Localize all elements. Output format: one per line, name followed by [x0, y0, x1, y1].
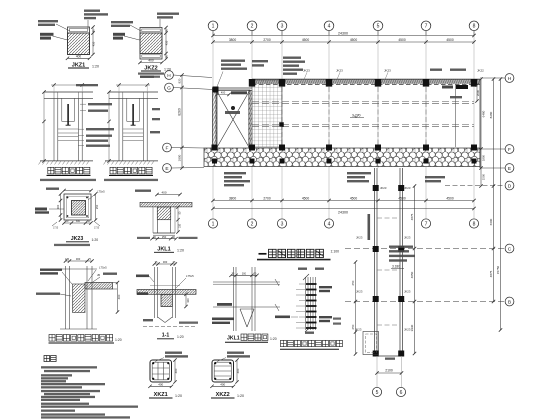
svg-text:3: 3 [281, 221, 284, 227]
svg-text:JK23: JK23 [356, 235, 363, 239]
svg-text:6: 6 [400, 390, 403, 396]
svg-text:4500: 4500 [302, 38, 310, 42]
svg-text:300: 300 [56, 204, 60, 209]
svg-text:5: 5 [376, 390, 379, 396]
svg-text:D: D [508, 183, 512, 189]
svg-text:2700: 2700 [263, 197, 271, 201]
svg-text:24300: 24300 [338, 31, 348, 35]
svg-text:300: 300 [76, 257, 81, 261]
svg-text:400: 400 [148, 59, 154, 63]
svg-text:1735: 1735 [53, 228, 59, 230]
svg-text:1:20: 1:20 [237, 394, 244, 398]
svg-text:7: 7 [425, 24, 428, 30]
svg-text:L75x5: L75x5 [99, 266, 107, 270]
svg-text:400: 400 [76, 54, 82, 58]
svg-text:6600: 6600 [489, 218, 493, 225]
svg-text:JK23: JK23 [404, 289, 411, 293]
svg-text:400: 400 [174, 368, 178, 373]
svg-text:4: 4 [328, 24, 331, 30]
svg-text:1:20: 1:20 [115, 338, 122, 342]
svg-text:JKL1: JKL1 [227, 336, 240, 342]
svg-text:1.270: 1.270 [352, 114, 361, 118]
svg-text:JKL1: JKL1 [157, 247, 170, 253]
svg-text:C: C [508, 246, 512, 252]
svg-text:JK23: JK23 [380, 186, 387, 190]
svg-text:400: 400 [221, 91, 226, 95]
svg-text:2100: 2100 [385, 369, 393, 373]
svg-text:B: B [508, 299, 511, 305]
svg-text:4500: 4500 [398, 197, 406, 201]
svg-text:3.180: 3.180 [392, 265, 400, 269]
svg-text:4500: 4500 [446, 38, 454, 42]
svg-text:2000: 2000 [476, 89, 480, 96]
svg-text:1-1: 1-1 [162, 333, 170, 339]
svg-text:8: 8 [473, 24, 476, 30]
svg-text:JK23: JK23 [355, 327, 362, 331]
svg-text:JK23: JK23 [404, 327, 411, 331]
svg-text:8280: 8280 [178, 108, 182, 116]
svg-text:L75x5: L75x5 [97, 190, 105, 194]
svg-text:1:20: 1:20 [177, 335, 184, 339]
svg-text:4: 4 [328, 221, 331, 227]
svg-text:4500: 4500 [398, 38, 406, 42]
svg-text:4500: 4500 [446, 197, 454, 201]
svg-text:300: 300 [242, 272, 247, 275]
svg-text:JK23: JK23 [303, 69, 310, 73]
svg-text:G: G [167, 85, 171, 91]
svg-text:JK23: JK23 [404, 235, 411, 239]
svg-text:3930: 3930 [410, 324, 414, 331]
svg-text:300: 300 [163, 260, 168, 264]
svg-text:F: F [166, 145, 169, 151]
svg-text:820: 820 [178, 78, 182, 83]
svg-text:7: 7 [425, 221, 428, 227]
svg-text:3800: 3800 [229, 38, 237, 42]
svg-text:150: 150 [179, 223, 182, 228]
svg-text:E: E [165, 166, 168, 172]
svg-text:1:20: 1:20 [270, 337, 277, 341]
svg-text:H: H [508, 76, 512, 82]
svg-text:300: 300 [76, 220, 81, 223]
svg-text:650: 650 [351, 280, 355, 285]
svg-text:JK23: JK23 [336, 69, 343, 73]
svg-text:XKZ2: XKZ2 [216, 392, 230, 398]
svg-text:XKZ1: XKZ1 [154, 392, 168, 398]
svg-text:1800: 1800 [178, 154, 182, 161]
svg-text:JK22: JK22 [477, 69, 484, 73]
svg-text:1:20: 1:20 [92, 238, 99, 242]
svg-text:450: 450 [165, 40, 169, 45]
svg-text:1:20: 1:20 [164, 68, 171, 72]
svg-text:250: 250 [162, 235, 167, 239]
svg-text:L75x5: L75x5 [186, 274, 194, 278]
svg-text:E: E [508, 166, 511, 172]
svg-text:1: 1 [212, 221, 215, 227]
svg-text:1:20: 1:20 [177, 249, 184, 253]
svg-text:3800: 3800 [229, 197, 237, 201]
svg-text:4875: 4875 [489, 270, 493, 277]
svg-text:125: 125 [65, 258, 70, 261]
svg-text:d5: d5 [97, 273, 101, 277]
svg-text:2700: 2700 [263, 38, 271, 42]
svg-text:4500: 4500 [350, 38, 358, 42]
svg-text:15750: 15750 [496, 265, 500, 274]
svg-text:4875: 4875 [410, 213, 414, 220]
svg-text:1:100: 1:100 [331, 250, 340, 254]
svg-text:2: 2 [251, 24, 254, 30]
svg-text:24300: 24300 [338, 211, 348, 215]
svg-text:300: 300 [186, 298, 190, 303]
svg-text:1:20: 1:20 [175, 394, 182, 398]
svg-text:2: 2 [251, 221, 254, 227]
svg-text:JK23: JK23 [71, 236, 84, 242]
svg-text:3: 3 [281, 24, 284, 30]
svg-text:8: 8 [473, 221, 476, 227]
svg-text:8280: 8280 [489, 111, 493, 118]
svg-text:1735: 1735 [94, 228, 100, 230]
svg-text:400: 400 [161, 191, 166, 195]
svg-text:H: H [167, 73, 171, 79]
svg-text:5: 5 [377, 24, 380, 30]
svg-text:400: 400 [220, 382, 225, 386]
svg-text:4500: 4500 [302, 197, 310, 201]
svg-text:1800: 1800 [481, 154, 485, 161]
svg-text:250: 250 [95, 204, 99, 209]
svg-text:4050: 4050 [410, 271, 414, 278]
svg-text:4500: 4500 [350, 197, 358, 201]
svg-text:400: 400 [158, 382, 163, 386]
svg-text:F: F [508, 147, 511, 153]
svg-text:1: 1 [212, 24, 215, 30]
svg-text:JK23: JK23 [356, 289, 363, 293]
svg-text:450: 450 [92, 41, 96, 46]
svg-text:1:20: 1:20 [92, 65, 99, 69]
svg-text:JK23: JK23 [404, 186, 411, 190]
svg-text:6480: 6480 [481, 110, 485, 117]
svg-text:1500: 1500 [481, 173, 485, 180]
svg-text:400: 400 [236, 368, 240, 373]
svg-text:JK23: JK23 [384, 69, 391, 73]
svg-text:400: 400 [117, 294, 121, 299]
